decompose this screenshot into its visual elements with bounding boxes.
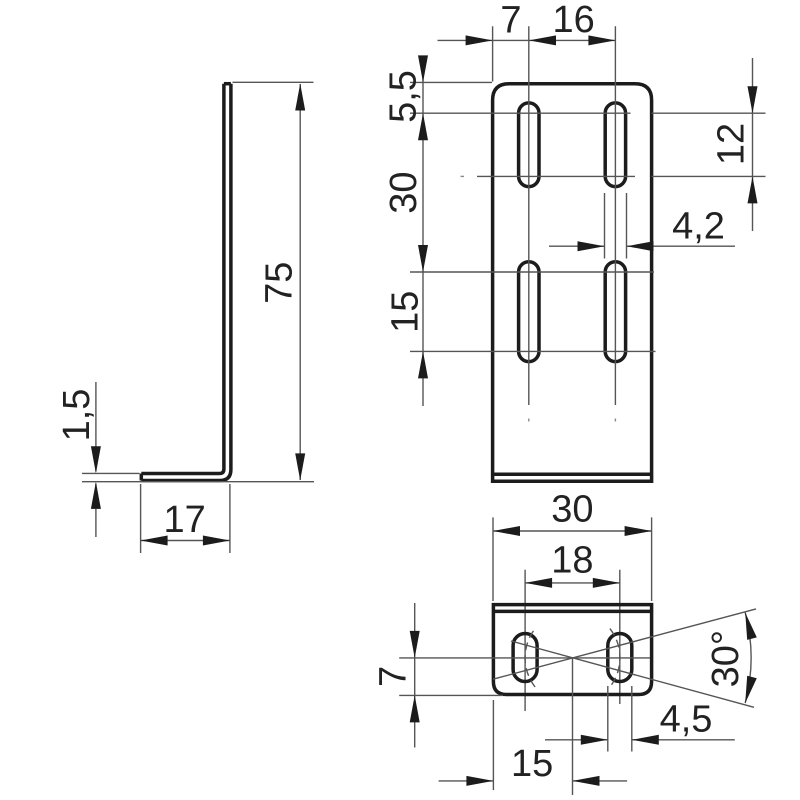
slot mid-left: [519, 262, 539, 362]
centerlines front view: [410, 26, 656, 405]
dimension 15: [439, 700, 627, 790]
dimension 18: [525, 540, 620, 712]
dimension 4,2: [549, 193, 735, 259]
top view slot right: [608, 634, 632, 682]
top view centerlines and angle lines: [399, 609, 756, 795]
front view plate outline: [493, 84, 652, 481]
slot top-left: [519, 103, 539, 187]
dimension 16 (top): [552, 0, 615, 45]
side view L-profile outline: [141, 84, 231, 481]
svg-text:1,5: 1,5: [56, 389, 98, 442]
svg-text:4,5: 4,5: [660, 699, 713, 741]
svg-text:5,5: 5,5: [383, 70, 425, 123]
svg-text:15: 15: [385, 291, 427, 333]
svg-text:15: 15: [511, 743, 553, 785]
svg-text:4,2: 4,2: [672, 205, 725, 247]
svg-text:12: 12: [711, 123, 753, 165]
dimension 1,5: [56, 382, 139, 537]
slot top-right: [605, 103, 625, 187]
svg-text:30: 30: [383, 171, 425, 213]
dimension 30 (width): [493, 488, 652, 601]
dimension 17: [141, 484, 230, 553]
dimension chain 5,5 / 30 / 15 (left): [383, 55, 492, 406]
top view slot left: [513, 634, 537, 682]
dimension 4,5: [545, 686, 735, 752]
svg-text:17: 17: [163, 499, 205, 541]
svg-text:75: 75: [258, 262, 300, 304]
svg-text:18: 18: [551, 540, 593, 582]
slot mid-right: [605, 262, 625, 362]
svg-text:30°: 30°: [705, 630, 747, 687]
dimension 75: [110, 82, 314, 481]
dimension 7 (top view): [372, 603, 503, 748]
centerline dots: [461, 176, 616, 421]
svg-text:7: 7: [372, 666, 414, 687]
top view outline: [493, 605, 651, 695]
svg-text:16: 16: [552, 0, 594, 41]
dimension 7 (top): [438, 0, 617, 82]
dimension 12 (right): [652, 58, 766, 231]
svg-text:30: 30: [551, 488, 593, 530]
dimension 30 degrees: [705, 613, 757, 704]
svg-text:7: 7: [500, 0, 521, 42]
